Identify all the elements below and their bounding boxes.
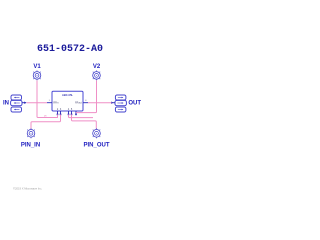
svg-text:V1: V1 (33, 64, 41, 70)
svg-text:651-0572-A0: 651-0572-A0 (37, 44, 103, 55)
svg-text:ABC-05L: ABC-05L (62, 93, 73, 97)
svg-text:PIN_OUT: PIN_OUT (83, 143, 109, 149)
svg-text:V2: V2 (93, 64, 101, 70)
svg-text:RFout: RFout (75, 102, 82, 105)
svg-text:OUT: OUT (128, 101, 141, 107)
svg-text:©2019 X Microwave Inc.: ©2019 X Microwave Inc. (13, 187, 42, 191)
svg-text:IN: IN (3, 101, 9, 107)
svg-text:PIN_IN: PIN_IN (21, 143, 40, 149)
svg-text:RFin: RFin (53, 102, 59, 105)
